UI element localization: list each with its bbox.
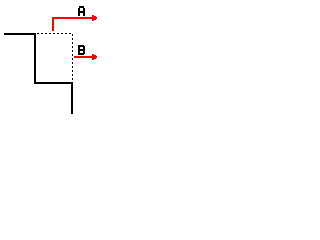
arrow A: head	[92, 15, 97, 21]
arrow A: vertical riser	[52, 17, 54, 31]
wire: upper step horizontal segment	[4, 33, 36, 35]
dashed guide: horizontal from upper corner	[37, 33, 71, 34]
wire: upper step vertical drop	[34, 33, 36, 84]
arrow A: horizontal shaft	[52, 17, 92, 19]
label A	[78, 6, 85, 16]
arrow B: horizontal shaft	[74, 56, 92, 58]
wire: lower step vertical drop	[71, 82, 73, 114]
arrow B: head	[92, 54, 97, 60]
label B	[78, 45, 85, 55]
wire: lower step horizontal segment	[34, 82, 73, 84]
dashed guide: vertical down to lower step	[72, 34, 73, 80]
